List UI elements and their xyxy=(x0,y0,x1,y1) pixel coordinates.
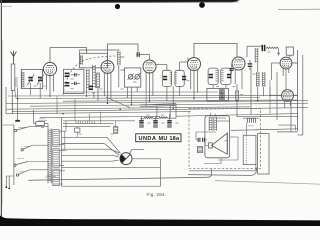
label box UNDA MU18a xyxy=(136,134,181,142)
bus wire 6 xyxy=(30,103,308,106)
tiny value labels xyxy=(34,52,271,142)
IFT3 hatch B xyxy=(221,70,223,81)
driver drops xyxy=(258,63,264,102)
IFT3 hatch A xyxy=(215,70,217,81)
decoupling wire xyxy=(140,104,176,107)
eye wire 5 xyxy=(62,160,119,161)
cap C13 xyxy=(167,114,171,127)
faint top-right line xyxy=(278,8,320,10)
speaker box inner wires xyxy=(218,137,238,160)
speaker cone xyxy=(212,133,228,154)
wire C8 right xyxy=(139,55,150,60)
right link wire xyxy=(278,125,295,130)
scan bottom black band xyxy=(0,216,320,227)
transformer secondary 3 xyxy=(53,169,59,185)
V6 grid wire xyxy=(272,63,281,80)
heater bus 2 xyxy=(63,123,114,125)
voltage tap 4 xyxy=(16,170,48,176)
b+ feed wire xyxy=(231,129,298,131)
bottom right faint wire xyxy=(215,181,320,185)
tube V7 xyxy=(282,90,294,108)
IFT3 cap B xyxy=(227,75,231,78)
wire R3 vert xyxy=(236,84,238,117)
resistor R7 xyxy=(114,121,118,134)
bottom bus xyxy=(62,185,161,187)
cap C6 xyxy=(71,73,80,76)
ground blob xyxy=(15,120,20,122)
mains leads xyxy=(5,176,14,189)
bus wire 1 xyxy=(63,91,218,93)
hum pot wire xyxy=(204,158,221,164)
osc coil L4 xyxy=(92,65,96,88)
field coil xyxy=(243,118,260,123)
left vert b xyxy=(11,99,13,112)
IFT3 cap A xyxy=(209,75,213,78)
detector load box xyxy=(207,88,229,101)
osc trimmer blob xyxy=(89,86,93,89)
speaker cap leads xyxy=(196,132,216,140)
svg-text:MU 18a: MU 18a xyxy=(159,136,180,142)
choke box xyxy=(258,134,269,174)
svg-text:UNDA: UNDA xyxy=(139,136,157,142)
wire V4 plate xyxy=(194,43,237,57)
vert riser a xyxy=(156,107,158,119)
bus wire 8 xyxy=(12,108,308,112)
wire V2 plate xyxy=(108,44,139,61)
IFT3 form B xyxy=(221,68,231,85)
IFT2 cap B xyxy=(182,77,186,80)
driver transformer xyxy=(256,72,265,87)
primary top wire xyxy=(29,126,48,128)
wire right rail2 xyxy=(298,55,303,135)
tuning cap C2 xyxy=(27,74,34,95)
filter wire xyxy=(140,117,176,120)
IFT2 form A xyxy=(162,70,171,86)
antenna lead-in box xyxy=(11,64,16,114)
vert riser c xyxy=(175,104,177,119)
cap C11 xyxy=(139,116,143,127)
scan top edge bar xyxy=(0,0,240,2)
right mid horizontal xyxy=(277,131,298,133)
cap C10 xyxy=(248,60,252,70)
IFT1 var cap 1 xyxy=(128,73,134,79)
speaker dashed enclosure xyxy=(189,109,261,169)
wire V3 drops2 xyxy=(145,92,147,106)
scan left edge line xyxy=(1,0,2,218)
bus wire 3 xyxy=(18,97,260,100)
cap C8 xyxy=(137,52,139,56)
coupling cap C9 xyxy=(262,45,264,51)
output transformer leads xyxy=(211,113,230,121)
tuning cap C3 xyxy=(37,74,44,98)
top right box xyxy=(286,47,293,57)
bus wire 10 xyxy=(40,114,298,118)
IFT2 drops xyxy=(167,86,180,108)
osc coil L3 xyxy=(86,69,89,89)
resistor R1 vertical xyxy=(97,73,100,88)
wire right rail xyxy=(297,50,299,131)
selector rail xyxy=(3,125,14,185)
eye output wire xyxy=(132,159,161,186)
eye wire 2 xyxy=(62,143,120,155)
tube V3 xyxy=(143,60,156,101)
oscillator top wire xyxy=(79,50,118,53)
antenna xyxy=(11,51,17,64)
eye wire 3 xyxy=(62,149,120,153)
speaker caps C14 xyxy=(196,138,207,142)
IFT2 form B xyxy=(175,70,184,86)
transformer primary xyxy=(48,128,51,183)
fuse F1 xyxy=(34,110,49,128)
IFT2 hatch A xyxy=(170,73,172,84)
AVC dashed arc xyxy=(63,56,117,95)
chassis label xyxy=(45,175,56,177)
magic eye V8 xyxy=(120,153,132,165)
svg-text:Fig. 284.: Fig. 284. xyxy=(147,192,167,197)
output transformer xyxy=(209,117,217,131)
tube V5 xyxy=(232,57,245,70)
heater bus 3 xyxy=(63,126,111,128)
eye top wire xyxy=(130,149,145,153)
connector strip xyxy=(76,121,94,124)
tube V4 xyxy=(188,58,201,99)
wire V6 plate right xyxy=(292,62,298,64)
padder box xyxy=(64,69,84,93)
left vert c xyxy=(17,88,19,120)
field coil housing xyxy=(243,135,256,164)
fuse label marks xyxy=(38,119,47,121)
tube V1 xyxy=(43,62,56,96)
eye wire 4 xyxy=(62,155,119,156)
tap labels xyxy=(17,127,31,172)
driver coil top xyxy=(255,48,258,63)
voltage tap 3 xyxy=(14,162,48,167)
tube V2 xyxy=(101,61,114,104)
bus drops xyxy=(57,96,75,121)
cap C12 xyxy=(153,116,157,127)
transformer secondary 2 xyxy=(53,149,59,167)
punch hole dot left xyxy=(115,4,120,9)
antenna coil L1 ticks xyxy=(15,78,18,86)
speaker wires xyxy=(205,140,208,145)
IFT2 cap A xyxy=(163,77,167,80)
IFT3 form A xyxy=(208,68,218,85)
voltage tap 1 xyxy=(14,127,29,132)
IFT1 var cap 2 xyxy=(134,73,140,79)
speaker frame xyxy=(205,116,230,158)
chassis wire left xyxy=(28,168,212,180)
speaker cap box xyxy=(197,146,202,152)
resistor R6 saw xyxy=(159,117,168,119)
antenna coil L2 xyxy=(22,72,25,88)
IFT3 drops xyxy=(213,85,226,89)
bus wire 9 xyxy=(6,112,191,114)
V5 drops xyxy=(235,69,242,89)
field coil label xyxy=(248,125,254,127)
junction dots xyxy=(17,95,271,115)
bus wire 4 xyxy=(63,100,298,101)
bus wire 2 xyxy=(8,94,298,97)
field coil drop xyxy=(245,123,247,135)
heater bus 1 xyxy=(63,120,135,122)
bus diagonal xyxy=(106,97,130,107)
bus wire 5 xyxy=(6,101,308,104)
resistor R3 xyxy=(236,91,239,101)
b+ wire right xyxy=(237,116,298,118)
grid resistor R4 saw xyxy=(266,47,280,55)
wire V1 plate xyxy=(50,48,87,63)
grid cap C15 xyxy=(230,64,234,74)
IFT1 box xyxy=(124,68,140,87)
bottom loop xyxy=(188,168,257,176)
IFT2 top wires xyxy=(156,58,188,71)
caption Fig 284 xyxy=(147,192,167,197)
volume pot R2 xyxy=(220,90,225,100)
tube V6 xyxy=(280,57,292,76)
right mid verticals xyxy=(251,68,291,132)
IFT2 hatch B xyxy=(175,73,177,84)
trimmer C4 xyxy=(65,73,70,76)
trimmer C5 xyxy=(65,83,70,86)
wire V7 plate right xyxy=(293,95,297,97)
bus wire 7 xyxy=(6,107,250,109)
voice coil xyxy=(208,143,212,148)
secondary leads xyxy=(59,121,66,184)
input tuned box xyxy=(21,70,42,89)
wire V2 to IFT1 xyxy=(120,57,124,70)
wire V5 to cap xyxy=(247,46,262,57)
resistor R5 saw xyxy=(144,117,153,119)
eye wire 6 xyxy=(62,166,161,168)
voltage tap 2 xyxy=(21,145,48,151)
transformer secondary 1 xyxy=(53,130,59,147)
eye wire 1 xyxy=(62,137,121,153)
wire osc drops xyxy=(87,88,99,101)
V6 V7 link xyxy=(285,69,287,90)
punch hole dot right xyxy=(199,2,205,8)
bias cell box xyxy=(75,127,80,133)
oscillator shield box xyxy=(79,53,107,68)
V7 grid wire xyxy=(270,87,282,96)
faint top-left tick xyxy=(0,5,12,7)
nest verticals xyxy=(62,112,101,187)
bottom right return wire xyxy=(189,165,256,171)
cap C7 xyxy=(71,82,80,85)
grid coil L5 xyxy=(117,51,120,87)
left vert a xyxy=(5,87,7,114)
IFT1 drops xyxy=(128,87,138,104)
vert riser b xyxy=(169,105,171,119)
